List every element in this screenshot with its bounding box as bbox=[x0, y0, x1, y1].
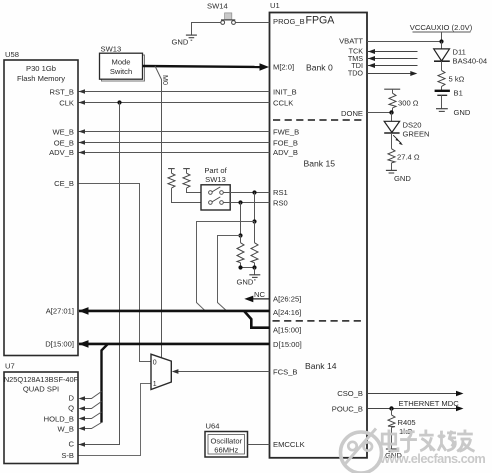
resistor 300 ohm bbox=[389, 89, 419, 112]
svg-text:GND: GND bbox=[237, 278, 254, 287]
arrowhead A bus at flash bbox=[79, 307, 89, 315]
svg-text:VBATT: VBATT bbox=[339, 37, 363, 46]
svg-text:TDO: TDO bbox=[348, 68, 364, 77]
wire TMS bbox=[368, 58, 418, 60]
wire CCLK to CLK bbox=[79, 102, 270, 104]
svg-text:300 Ω: 300 Ω bbox=[398, 99, 419, 108]
arrowhead RST_B bbox=[79, 89, 86, 94]
svg-text:U58: U58 bbox=[5, 50, 19, 59]
arrowhead D bus at flash bbox=[79, 340, 89, 348]
svg-text:W_B: W_B bbox=[58, 425, 74, 434]
wire CE_B to mux input 0 bbox=[79, 184, 152, 362]
svg-text:SW13: SW13 bbox=[205, 175, 226, 184]
svg-text:NC: NC bbox=[254, 290, 265, 299]
svg-text:POUC_B: POUC_B bbox=[332, 404, 363, 413]
wire FOE_B to OE_B bbox=[79, 142, 270, 144]
svg-text:5 kΩ: 5 kΩ bbox=[449, 74, 465, 83]
arrowhead C bbox=[79, 442, 86, 447]
mux U (FCS_B demux) bbox=[151, 354, 171, 389]
svg-text:CLK: CLK bbox=[59, 99, 74, 108]
wire RS1 tap to A bus bbox=[197, 222, 255, 311]
wire POUC_B / ETHERNET MDC bbox=[367, 408, 457, 410]
svg-text:www.elecfans.com: www.elecfans.com bbox=[379, 451, 485, 466]
svg-text:D11: D11 bbox=[453, 48, 466, 57]
svg-text:GND: GND bbox=[394, 174, 411, 183]
wire INIT_B to RST_B bbox=[79, 91, 270, 93]
wire SPI HOLD_B tap bbox=[85, 412, 102, 419]
wire RS0 bbox=[223, 202, 269, 204]
wire NC on A[26:25] bbox=[244, 290, 269, 302]
svg-text:P30 1Gb: P30 1Gb bbox=[26, 64, 56, 73]
arrowhead TDI bbox=[368, 63, 375, 68]
node RS0 tap junction bbox=[238, 233, 242, 237]
ground (SW14) bbox=[172, 35, 197, 46]
svg-text:Oscillator: Oscillator bbox=[210, 437, 242, 446]
svg-text:DONE: DONE bbox=[341, 109, 363, 118]
友 bbox=[457, 430, 474, 452]
svg-text:GND: GND bbox=[172, 37, 189, 46]
svg-text:BAS40-04: BAS40-04 bbox=[453, 56, 488, 65]
svg-text:66MHz: 66MHz bbox=[214, 446, 238, 455]
led DS20 bbox=[384, 113, 429, 146]
diode D11 bbox=[434, 42, 487, 66]
svg-text:A[27:01]: A[27:01] bbox=[46, 307, 74, 316]
svg-text:U7: U7 bbox=[5, 362, 15, 371]
wire TCK bbox=[368, 51, 418, 53]
烧 bbox=[438, 431, 456, 451]
svg-text:1: 1 bbox=[153, 381, 157, 388]
svg-text:RS0: RS0 bbox=[273, 198, 288, 207]
svg-text:FCS_B: FCS_B bbox=[273, 368, 297, 377]
ground (LED) bbox=[386, 170, 411, 183]
fpga U1 bbox=[270, 1, 368, 458]
bus D[15:00] bbox=[79, 343, 270, 346]
svg-text:Flash Memory: Flash Memory bbox=[17, 74, 65, 83]
wire SPI D tap bbox=[85, 392, 102, 399]
bus A[15:00] branch bbox=[244, 311, 270, 328]
svg-text:DS20: DS20 bbox=[403, 121, 422, 130]
svg-text:FWE_B: FWE_B bbox=[273, 127, 299, 136]
svg-text:INIT_B: INIT_B bbox=[273, 87, 297, 96]
子 bbox=[400, 432, 417, 452]
svg-text:RS1: RS1 bbox=[273, 188, 288, 197]
wire SW14 to PROG_B bbox=[235, 22, 269, 24]
wire RS0 tap down bbox=[240, 203, 242, 236]
wire CSO_B bbox=[367, 393, 457, 395]
wire RS0 tap to A bus bbox=[218, 236, 241, 311]
svg-text:N25Q128A13BSF-40F: N25Q128A13BSF-40F bbox=[4, 375, 79, 384]
wire SW14 left to ground bbox=[192, 23, 221, 36]
svg-text:S-B: S-B bbox=[61, 451, 74, 460]
arrowhead Q bbox=[79, 406, 86, 410]
wire joining pulldowns bbox=[241, 267, 255, 269]
svg-text:CCLK: CCLK bbox=[273, 99, 293, 108]
wire M0 branch bbox=[155, 66, 170, 358]
node RS0 junction bbox=[238, 200, 242, 204]
svg-text:U1: U1 bbox=[270, 1, 280, 10]
mode switch SW13 bbox=[100, 45, 145, 82]
node pulldown left bbox=[238, 265, 242, 269]
svg-text:GREEN: GREEN bbox=[403, 129, 430, 138]
arrowhead TDO bbox=[410, 71, 417, 76]
svg-text:A[24:16]: A[24:16] bbox=[273, 308, 301, 317]
svg-text:A[15:00]: A[15:00] bbox=[273, 326, 301, 335]
flash memory U58 bbox=[4, 50, 78, 356]
svg-text:ADV_B: ADV_B bbox=[49, 148, 74, 157]
arrowhead TMS bbox=[368, 56, 375, 61]
node POUC junction bbox=[389, 406, 393, 410]
arrowhead OE_B bbox=[79, 140, 86, 145]
svg-text:SW14: SW14 bbox=[207, 2, 228, 11]
arrowhead POUC_B bbox=[456, 406, 464, 412]
arrowhead WE_B bbox=[79, 129, 86, 134]
svg-text:WE_B: WE_B bbox=[52, 127, 74, 136]
arrowhead D bbox=[79, 396, 86, 400]
oscillator U64 bbox=[205, 422, 248, 458]
wire DONE bbox=[367, 112, 392, 114]
svg-text:C: C bbox=[69, 440, 75, 449]
resistor R405 bbox=[388, 409, 416, 437]
svg-text:OE_B: OE_B bbox=[54, 139, 74, 148]
ground (battery) bbox=[436, 95, 471, 117]
resistor RS0 pulldown bbox=[237, 236, 244, 268]
arrowhead W_B bbox=[79, 426, 86, 430]
bus D branch down to QUAD SPI bbox=[102, 344, 108, 423]
resistor pull-up R (left of Part of SW13) bbox=[168, 169, 201, 203]
svg-text:R405: R405 bbox=[398, 418, 416, 427]
wire FWE_B to WE_B bbox=[79, 131, 270, 133]
wire S-B to mux input 1 bbox=[79, 384, 152, 456]
svg-text:FOE_B: FOE_B bbox=[273, 139, 298, 148]
svg-text:B1: B1 bbox=[454, 89, 463, 98]
arrowhead CLK bbox=[79, 100, 86, 105]
resistor pull-up R (right) bbox=[183, 169, 201, 193]
svg-text:Mode: Mode bbox=[112, 58, 131, 67]
svg-text:Switch: Switch bbox=[110, 67, 132, 76]
svg-text:HOLD_B: HOLD_B bbox=[44, 415, 74, 424]
wire SPI Q tap bbox=[85, 402, 102, 409]
arrowhead TCK bbox=[368, 49, 375, 54]
arrowhead ADV_B bbox=[79, 150, 86, 155]
svg-text:VCCAUXIO (2.0V): VCCAUXIO (2.0V) bbox=[410, 23, 473, 32]
svg-text:Bank 0: Bank 0 bbox=[306, 62, 333, 72]
发 bbox=[419, 430, 435, 451]
wire TDI bbox=[368, 65, 418, 67]
wire RS1 tap down bbox=[254, 193, 256, 222]
svg-text:SW13: SW13 bbox=[101, 45, 122, 54]
svg-text:Part of: Part of bbox=[204, 166, 227, 175]
svg-text:Bank 14: Bank 14 bbox=[305, 361, 337, 371]
ground (RS pulldowns) bbox=[237, 268, 261, 287]
svg-text:D[15:00]: D[15:00] bbox=[45, 340, 74, 349]
svg-text:M[2:0]: M[2:0] bbox=[273, 63, 294, 72]
pushbutton SW14 bbox=[207, 2, 235, 25]
arrowhead HOLD_B bbox=[79, 416, 86, 420]
bank separator dashed (Bank15/Bank14) bbox=[273, 320, 362, 322]
wire SPI W_B tap bbox=[85, 423, 102, 429]
svg-text:EMCCLK: EMCCLK bbox=[273, 440, 305, 449]
ground (R405) bbox=[385, 427, 402, 460]
svg-text:ADV_B: ADV_B bbox=[273, 148, 298, 157]
svg-text:0: 0 bbox=[153, 360, 157, 367]
wire RS1 bbox=[223, 192, 269, 194]
svg-text:CSO_B: CSO_B bbox=[337, 389, 363, 398]
bus M[2:0] from SW13 to FPGA bbox=[143, 63, 270, 70]
battery B1 bbox=[435, 87, 463, 98]
arrowhead CSO_B bbox=[456, 391, 464, 397]
wire oscillator to EMCCLK bbox=[248, 444, 270, 446]
svg-text:Q: Q bbox=[68, 404, 74, 413]
node VBATT junction bbox=[439, 39, 443, 43]
node RS1 junction bbox=[252, 190, 256, 194]
resistor 5k bbox=[438, 61, 465, 86]
svg-text:CE_B: CE_B bbox=[54, 179, 74, 188]
node RS1 tap junction bbox=[252, 219, 256, 223]
svg-text:FPGA: FPGA bbox=[306, 15, 336, 27]
wire ADV_B bbox=[79, 152, 270, 154]
svg-text:QUAD SPI: QUAD SPI bbox=[23, 384, 59, 393]
svg-text:U64: U64 bbox=[206, 422, 220, 431]
power VCCAUXIO bbox=[410, 23, 473, 42]
wire TDO bbox=[367, 73, 411, 75]
power rail for 300 ohm bbox=[384, 88, 400, 90]
watermark logo circle bbox=[341, 429, 382, 473]
arrowhead FCS_B bbox=[172, 369, 179, 374]
switch Part of SW13 bbox=[201, 166, 230, 210]
svg-text:PROG_B: PROG_B bbox=[273, 17, 305, 26]
svg-text:GND: GND bbox=[454, 108, 471, 117]
node pulldown right bbox=[252, 265, 256, 269]
node CLK junction bbox=[117, 100, 121, 104]
svg-text:27.4 Ω: 27.4 Ω bbox=[397, 153, 420, 162]
svg-text:RST_B: RST_B bbox=[50, 88, 74, 97]
svg-text:Bank 15: Bank 15 bbox=[304, 158, 336, 168]
wire VBATT bbox=[367, 41, 442, 43]
wire CLK down to SPI C bbox=[79, 103, 120, 445]
wire FCS_B to mux bbox=[178, 371, 270, 373]
svg-text:ETHERNET MDC: ETHERNET MDC bbox=[399, 399, 460, 408]
quad spi U7 bbox=[4, 362, 79, 464]
电 bbox=[382, 430, 398, 451]
svg-text:D: D bbox=[69, 394, 75, 403]
resistor 27.4 ohm bbox=[388, 133, 420, 170]
svg-text:D[15:00]: D[15:00] bbox=[273, 340, 302, 349]
resistor RS1 pulldown bbox=[251, 222, 258, 268]
bus A[27:01] to A[24:16] bbox=[79, 310, 270, 313]
svg-text:A[26:25]: A[26:25] bbox=[273, 295, 301, 304]
watermark text 电子发烧友 (hand-drawn glyphs) bbox=[382, 430, 474, 452]
bank separator dashed (Bank0/Bank15) bbox=[273, 119, 364, 121]
svg-text:M0: M0 bbox=[161, 75, 170, 85]
node DONE junction bbox=[389, 110, 393, 114]
